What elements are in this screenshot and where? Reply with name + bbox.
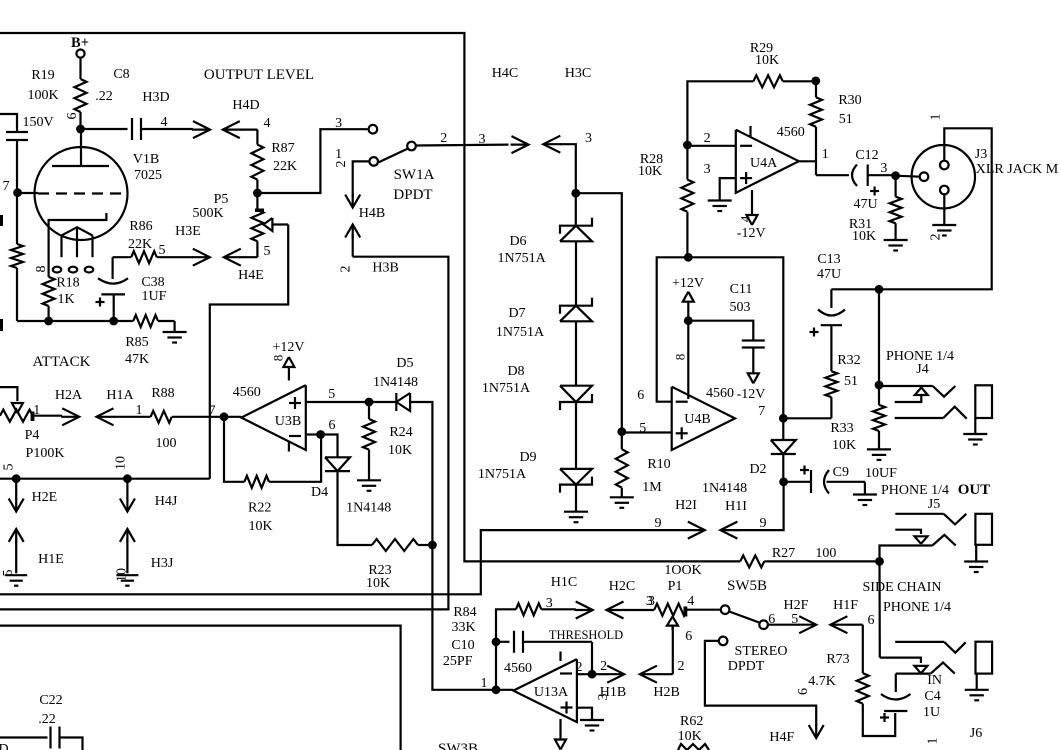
capacitor C12 47U bbox=[816, 174, 849, 176]
svg-text:10K: 10K bbox=[638, 164, 662, 179]
svg-text:51: 51 bbox=[839, 112, 853, 127]
svg-text:H2B: H2B bbox=[653, 685, 679, 700]
svg-text:8: 8 bbox=[672, 354, 687, 361]
svg-text:R84: R84 bbox=[453, 605, 476, 620]
svg-text:R22: R22 bbox=[248, 500, 271, 515]
wire: R73 bottom to C4 bbox=[863, 704, 895, 736]
resistor R18 1K cathode bbox=[43, 277, 55, 306]
resistor R22 10K feedback bbox=[224, 417, 244, 482]
wire: supply from R28 bottom bbox=[686, 212, 688, 257]
wire: XLR pin2 to ground bbox=[943, 194, 945, 225]
svg-text:R19: R19 bbox=[31, 68, 54, 83]
svg-text:5: 5 bbox=[639, 421, 646, 436]
svg-text:PHONE 1/4: PHONE 1/4 bbox=[881, 483, 949, 498]
svg-text:3: 3 bbox=[646, 594, 653, 609]
svg-text:R30: R30 bbox=[838, 93, 861, 108]
svg-text:R10: R10 bbox=[647, 457, 670, 472]
svg-text:1: 1 bbox=[33, 403, 40, 418]
svg-text:6: 6 bbox=[868, 613, 875, 628]
svg-text:10K: 10K bbox=[755, 53, 779, 68]
connector H2B arrow bbox=[640, 666, 657, 683]
op-amp U13A V+ tick bbox=[559, 652, 561, 662]
ground: R24 bbox=[357, 479, 381, 481]
tube plate bbox=[52, 165, 109, 167]
svg-text:H2F: H2F bbox=[784, 598, 809, 613]
wire: grid node to tube bbox=[18, 192, 38, 194]
svg-text:J5: J5 bbox=[928, 497, 940, 512]
svg-text:R73: R73 bbox=[826, 652, 849, 667]
svg-text:5: 5 bbox=[159, 243, 166, 258]
svg-text:R88: R88 bbox=[151, 386, 174, 401]
svg-text:D9: D9 bbox=[519, 450, 536, 465]
ground: U4A pin3 bbox=[708, 199, 732, 201]
svg-text:H4E: H4E bbox=[238, 268, 264, 283]
op-amp U3B negative pin stub bbox=[288, 442, 290, 452]
svg-text:1: 1 bbox=[481, 676, 488, 691]
svg-text:100: 100 bbox=[156, 436, 177, 451]
svg-text:P100K: P100K bbox=[26, 446, 65, 461]
svg-text:IN: IN bbox=[927, 673, 942, 688]
svg-text:10K: 10K bbox=[852, 229, 876, 244]
ground: J4 body bbox=[974, 418, 976, 434]
capacitor C8 .22 coupling bbox=[81, 128, 128, 130]
resistor R73 4.7K bbox=[862, 625, 864, 674]
wire: SW1A contact 3 wire bbox=[257, 129, 368, 193]
node: zener ladder top bbox=[571, 189, 580, 198]
capacitor C9 10UF bbox=[800, 469, 809, 471]
svg-text:SIDE CHAIN: SIDE CHAIN bbox=[863, 580, 942, 595]
node: D2/C9 junction bbox=[779, 477, 788, 486]
op-amp U4B 4560 bbox=[672, 387, 735, 450]
svg-text:D: D bbox=[0, 742, 9, 750]
svg-text:R24: R24 bbox=[389, 425, 412, 440]
svg-text:-12V: -12V bbox=[737, 387, 766, 402]
ground: R10 bbox=[610, 496, 634, 498]
wire: R23 node down to U13A pin1 bbox=[432, 545, 492, 690]
node: plate node junction bbox=[76, 125, 85, 134]
op-amp U13A 4560 bbox=[513, 659, 577, 722]
svg-text:9: 9 bbox=[760, 516, 767, 531]
svg-text:OUTPUT LEVEL: OUTPUT LEVEL bbox=[204, 67, 314, 83]
svg-text:P5: P5 bbox=[214, 192, 229, 207]
connector H3C arrow bbox=[543, 136, 560, 153]
wire: P5 wiper down to attack rail bbox=[210, 225, 288, 479]
ground: XLR pin2 bbox=[932, 224, 956, 226]
triode V1B 7025 envelope bbox=[35, 147, 128, 240]
svg-text:1N4148: 1N4148 bbox=[346, 500, 391, 515]
resistor R19 100K bbox=[75, 79, 87, 112]
svg-text:SW3B: SW3B bbox=[438, 741, 478, 750]
connector J6 phone jack SIDE CHAIN bbox=[880, 658, 921, 663]
svg-text:6: 6 bbox=[768, 612, 775, 627]
wire: pin7 to R32 bottom bbox=[783, 417, 831, 419]
ground: C9 bbox=[864, 482, 866, 495]
ground: R31 bbox=[884, 239, 908, 241]
svg-text:THRESHOLD: THRESHOLD bbox=[549, 628, 623, 642]
capacitor C4 1U bbox=[881, 694, 911, 700]
svg-text:DPDT: DPDT bbox=[728, 659, 765, 674]
svg-text:1: 1 bbox=[928, 114, 943, 121]
resistor R10 1M bbox=[621, 432, 623, 450]
svg-text:D4: D4 bbox=[311, 485, 328, 500]
connector H2C arrow bbox=[607, 602, 624, 619]
svg-text:5: 5 bbox=[791, 612, 798, 627]
svg-text:R85: R85 bbox=[125, 335, 148, 350]
resistor R30 51 bbox=[815, 81, 817, 98]
svg-text:H2E: H2E bbox=[32, 490, 58, 505]
capacitor C10 25PF bbox=[496, 641, 510, 643]
connector H3J arrow (up) with ground bbox=[120, 529, 135, 542]
svg-text:R86: R86 bbox=[129, 219, 152, 234]
zener D9 1N751A bbox=[575, 402, 577, 469]
svg-text:H2A: H2A bbox=[55, 388, 83, 403]
svg-text:H4D: H4D bbox=[232, 98, 259, 113]
svg-text:C38: C38 bbox=[141, 275, 164, 290]
node: cathode rail R18 bbox=[44, 317, 53, 326]
svg-text:C22: C22 bbox=[39, 693, 62, 708]
svg-text:3: 3 bbox=[585, 131, 592, 146]
ground: U13A pin3 bbox=[580, 719, 604, 721]
wire: U4A pin3 ground bbox=[720, 178, 736, 200]
svg-text:H3B: H3B bbox=[372, 261, 398, 276]
wire: U3B pin5 to D5/R24 bbox=[306, 401, 369, 403]
svg-text:H4J: H4J bbox=[155, 494, 178, 509]
svg-text:4: 4 bbox=[161, 115, 168, 130]
svg-text:47U: 47U bbox=[853, 197, 877, 212]
svg-text:4: 4 bbox=[687, 594, 694, 609]
wire: side chain vertical to J6 bbox=[878, 561, 880, 657]
wire: tube bottom rail bbox=[17, 320, 133, 322]
svg-text:5: 5 bbox=[264, 244, 271, 259]
node: U13A pin1 node bbox=[492, 685, 501, 694]
ground: zener ladder bbox=[575, 485, 577, 512]
svg-text:4.7K: 4.7K bbox=[808, 674, 836, 689]
connector J4 phone jack bbox=[879, 385, 933, 387]
diode D5 1N4148 bbox=[395, 393, 397, 411]
svg-text:1: 1 bbox=[136, 403, 143, 418]
connector H2I arrow bbox=[688, 522, 705, 539]
wire: outer loop top border and right edge down to R27 rail bbox=[0, 33, 740, 561]
svg-text:C12: C12 bbox=[855, 148, 878, 163]
svg-text:1: 1 bbox=[822, 147, 829, 162]
wire: H1I to D2 node bbox=[733, 482, 783, 530]
svg-text:P1: P1 bbox=[668, 579, 683, 594]
resistor R32 51 bbox=[825, 371, 837, 397]
svg-text:1N751A: 1N751A bbox=[482, 381, 531, 396]
svg-text:.22: .22 bbox=[95, 89, 113, 104]
svg-text:H1E: H1E bbox=[38, 552, 64, 567]
svg-text:H3C: H3C bbox=[565, 66, 591, 81]
svg-text:7: 7 bbox=[758, 404, 765, 419]
svg-text:7: 7 bbox=[3, 179, 10, 194]
resistor R24 10K bbox=[368, 402, 370, 419]
wire: R19 to plate node bbox=[79, 112, 81, 129]
svg-text:10UF: 10UF bbox=[865, 466, 897, 481]
op-amp U3B 4560 bbox=[241, 385, 305, 450]
svg-text:STEREO: STEREO bbox=[735, 644, 788, 659]
connector J3 XLR JACK M bbox=[896, 176, 920, 177]
connector H4D arrow bbox=[223, 121, 240, 138]
op-amp U4A V+ tick bbox=[749, 126, 751, 137]
svg-text:DPDT: DPDT bbox=[393, 187, 432, 203]
svg-text:J3: J3 bbox=[975, 147, 987, 162]
connector H1I arrow bbox=[720, 522, 737, 539]
svg-text:4560: 4560 bbox=[504, 661, 532, 676]
wire: D4 to R23 bbox=[338, 471, 373, 545]
svg-text:H1F: H1F bbox=[833, 598, 858, 613]
svg-text:U4B: U4B bbox=[684, 412, 710, 427]
node: R23/D5 junction bbox=[428, 541, 437, 550]
wire: stereo contact to H4F bbox=[705, 641, 816, 726]
wire: H3C to zener ladder bbox=[560, 144, 576, 189]
wire: H2B to P1 wiper bbox=[672, 626, 674, 674]
tube heater bbox=[62, 227, 93, 235]
wire: R29 feedback top bbox=[687, 81, 753, 145]
svg-text:100K: 100K bbox=[27, 88, 58, 103]
wire: long return wire to H2I arrow (lower left) bbox=[0, 530, 688, 594]
node: R87/P5 junction bbox=[253, 189, 262, 198]
potentiometer P5 500K bbox=[256, 193, 258, 209]
resistor R86 22K bbox=[113, 256, 132, 258]
op-amp U13A V- arrow bbox=[559, 719, 561, 740]
svg-text:150V: 150V bbox=[22, 115, 53, 130]
svg-text:5: 5 bbox=[1, 570, 16, 577]
node: R33/J4 junction bbox=[875, 381, 884, 390]
svg-text:R87: R87 bbox=[271, 141, 294, 156]
svg-text:C4: C4 bbox=[924, 689, 940, 704]
svg-text:5: 5 bbox=[2, 464, 17, 471]
svg-text:2: 2 bbox=[678, 659, 685, 674]
svg-text:SW1A: SW1A bbox=[394, 167, 435, 183]
svg-text:2: 2 bbox=[576, 660, 583, 675]
svg-text:4: 4 bbox=[738, 215, 753, 222]
svg-text:3: 3 bbox=[596, 694, 611, 701]
svg-text:C13: C13 bbox=[817, 252, 840, 267]
svg-text:3: 3 bbox=[704, 162, 711, 177]
ground: J5 body bbox=[975, 545, 977, 562]
wire: B+ to R19 bbox=[79, 58, 81, 79]
svg-text:H4B: H4B bbox=[359, 206, 385, 221]
wire: pin2 into U4A bbox=[687, 145, 735, 147]
svg-text:7: 7 bbox=[209, 404, 216, 419]
zener D6 1N751A bbox=[575, 193, 577, 226]
left edge clipped text marks bbox=[0, 215, 3, 226]
svg-text:1N751A: 1N751A bbox=[497, 251, 546, 266]
svg-text:1OOK: 1OOK bbox=[664, 563, 701, 578]
svg-text:+12V: +12V bbox=[272, 340, 304, 355]
connector H3D arrow bbox=[193, 121, 210, 138]
svg-text:47U: 47U bbox=[817, 267, 841, 282]
connector H3E arrow bbox=[193, 249, 210, 266]
connector H4F arrow (down) bbox=[809, 725, 824, 738]
svg-text:U13A: U13A bbox=[534, 685, 569, 700]
svg-text:10: 10 bbox=[114, 456, 129, 470]
svg-text:6: 6 bbox=[796, 688, 811, 695]
capacitor C13 47U bbox=[830, 289, 832, 308]
svg-text:C9: C9 bbox=[833, 465, 849, 480]
resistor R33 10K bbox=[878, 385, 880, 405]
connector H1A arrow bbox=[97, 408, 114, 425]
capacitor: 150V supply cap at left edge bbox=[0, 114, 17, 132]
connector H1B arrow bbox=[607, 666, 624, 683]
svg-text:B+: B+ bbox=[71, 35, 89, 51]
svg-text:10K: 10K bbox=[388, 443, 412, 458]
connector H1F arrow bbox=[830, 616, 847, 633]
wire: C10 right down to pin2 bbox=[591, 642, 593, 674]
switch SW5B stereo section contact bbox=[719, 637, 728, 646]
resistor R84 33K bbox=[496, 609, 516, 638]
svg-text:V1B: V1B bbox=[133, 152, 159, 167]
tube cathode bbox=[49, 213, 107, 277]
switch SW1A DPDT bbox=[369, 125, 378, 134]
svg-text:100: 100 bbox=[815, 546, 836, 561]
wire: U4A output to R30 column bbox=[799, 160, 816, 162]
svg-text:3: 3 bbox=[335, 116, 342, 131]
svg-text:H4C: H4C bbox=[492, 66, 518, 81]
svg-text:H3E: H3E bbox=[175, 224, 201, 239]
svg-text:H2I: H2I bbox=[675, 498, 697, 513]
svg-text:8: 8 bbox=[34, 266, 49, 273]
svg-text:H3J: H3J bbox=[151, 556, 174, 571]
svg-text:OUT: OUT bbox=[958, 482, 991, 498]
diode D2 1N4148 bbox=[782, 418, 784, 440]
svg-text:10K: 10K bbox=[678, 729, 702, 744]
wire: R27 rail right portion to J5 node bbox=[764, 560, 879, 562]
svg-text:J4: J4 bbox=[916, 362, 928, 377]
svg-text:25PF: 25PF bbox=[443, 654, 473, 669]
svg-text:6: 6 bbox=[637, 388, 644, 403]
svg-text:2: 2 bbox=[704, 131, 711, 146]
svg-text:2: 2 bbox=[440, 131, 447, 146]
svg-text:1K: 1K bbox=[57, 292, 74, 307]
node: C38 rail junction bbox=[109, 317, 118, 326]
svg-text:XLR JACK M: XLR JACK M bbox=[976, 162, 1059, 177]
svg-text:500K: 500K bbox=[192, 206, 223, 221]
wire: SW5B to H2F bbox=[768, 624, 799, 626]
svg-text:D5: D5 bbox=[396, 356, 413, 371]
svg-text:22K: 22K bbox=[273, 159, 297, 174]
resistor R31 10K bbox=[894, 176, 896, 197]
svg-text:1: 1 bbox=[926, 738, 941, 745]
svg-text:1UF: 1UF bbox=[142, 289, 167, 304]
zener D8 1N751A bbox=[575, 321, 577, 385]
node: feedback/+12V supply junction bbox=[684, 253, 693, 262]
svg-text:22K: 22K bbox=[128, 237, 152, 252]
svg-text:1: 1 bbox=[335, 147, 342, 162]
svg-text:C10: C10 bbox=[451, 638, 474, 653]
tube pin circles bbox=[53, 267, 61, 273]
svg-text:47K: 47K bbox=[125, 352, 149, 367]
node: pin5/R24/D5 bbox=[365, 398, 374, 407]
capacitor C38 1UF bbox=[111, 257, 113, 279]
svg-text:D8: D8 bbox=[507, 364, 524, 379]
node: C13 junction bbox=[875, 285, 884, 294]
svg-text:6: 6 bbox=[65, 113, 80, 120]
svg-text:503: 503 bbox=[730, 300, 751, 315]
resistor R29 10K bbox=[753, 75, 782, 87]
svg-text:5: 5 bbox=[328, 387, 335, 402]
svg-text:6: 6 bbox=[329, 418, 336, 433]
wire: U13A pin3 ground bbox=[577, 708, 592, 720]
svg-text:H1C: H1C bbox=[551, 575, 577, 590]
svg-text:1M: 1M bbox=[642, 480, 662, 495]
connector H2E arrow (down) bbox=[15, 479, 17, 499]
svg-text:D7: D7 bbox=[508, 306, 525, 321]
svg-text:3: 3 bbox=[479, 132, 486, 147]
svg-text:PHONE 1/4: PHONE 1/4 bbox=[883, 600, 951, 615]
svg-text:4560: 4560 bbox=[233, 385, 261, 400]
svg-text:1U: 1U bbox=[923, 705, 940, 720]
svg-text:R33: R33 bbox=[830, 421, 853, 436]
svg-text:1N4148: 1N4148 bbox=[702, 481, 747, 496]
svg-text:D6: D6 bbox=[509, 234, 526, 249]
svg-text:4560: 4560 bbox=[777, 125, 805, 140]
power terminal B+ bbox=[76, 50, 84, 58]
wire: ladder top to U4B pin5 bbox=[576, 193, 622, 428]
node: C12/R31/XLR junction bbox=[891, 171, 900, 180]
connector H2A arrow bbox=[62, 408, 79, 425]
svg-text:7025: 7025 bbox=[134, 168, 162, 183]
ground: R33 bbox=[867, 448, 891, 450]
node: U4B pin5 node bbox=[617, 427, 626, 436]
resistor (left, partially labelled off-page) bbox=[16, 197, 18, 245]
ground: R85 bbox=[174, 321, 176, 332]
resistor R85 47K bbox=[133, 315, 158, 327]
svg-text:R62: R62 bbox=[680, 714, 703, 729]
connector H4J arrow (down) bbox=[126, 479, 128, 499]
node: R84/C10 left junction bbox=[492, 637, 501, 646]
svg-text:10: 10 bbox=[115, 568, 130, 582]
tube grid (dashed) bbox=[38, 192, 122, 194]
svg-text:D2: D2 bbox=[749, 462, 766, 477]
connector H1E arrow (up) with ground bbox=[9, 529, 24, 542]
svg-text:ATTACK: ATTACK bbox=[33, 354, 91, 370]
svg-text:H3D: H3D bbox=[142, 90, 169, 105]
svg-text:C11: C11 bbox=[730, 282, 753, 297]
svg-text:U4A: U4A bbox=[750, 156, 778, 171]
diode D4 1N4148 bbox=[325, 457, 350, 471]
svg-text:1N4148: 1N4148 bbox=[373, 375, 418, 390]
svg-text:H2C: H2C bbox=[609, 579, 635, 594]
svg-text:R18: R18 bbox=[56, 276, 79, 291]
svg-text:H1I: H1I bbox=[725, 499, 747, 514]
connector H4E arrow bbox=[224, 249, 241, 266]
node: U4A pin2 node bbox=[683, 141, 692, 150]
svg-text:2: 2 bbox=[600, 659, 607, 674]
svg-text:33K: 33K bbox=[452, 620, 476, 635]
wire: SW1A common output bbox=[416, 144, 509, 147]
wire: pin6 to D4 bbox=[321, 435, 338, 458]
wire: pin5 into U4B bbox=[622, 431, 672, 433]
wire: XLR pin1 loop to C13 node bbox=[831, 128, 991, 289]
op-amp U4A V- pin 4 arrow -12V bbox=[751, 190, 753, 215]
svg-text:-12V: -12V bbox=[737, 226, 766, 241]
svg-text:4560: 4560 bbox=[706, 386, 734, 401]
ground: J6 body bbox=[976, 674, 978, 690]
zener D7 1N751A bbox=[575, 241, 577, 305]
connector H3B arrow (up) bbox=[345, 225, 360, 238]
svg-text:2: 2 bbox=[338, 266, 353, 273]
svg-text:2: 2 bbox=[334, 161, 349, 168]
svg-text:R27: R27 bbox=[772, 546, 795, 561]
svg-text:3: 3 bbox=[880, 161, 887, 176]
svg-text:10K: 10K bbox=[366, 576, 390, 591]
capacitor C11 503 bbox=[688, 321, 753, 341]
svg-text:8: 8 bbox=[271, 355, 286, 362]
svg-text:10K: 10K bbox=[248, 519, 272, 534]
svg-text:1N751A: 1N751A bbox=[496, 325, 545, 340]
wire: sidechain branch down to R33/J4 bbox=[878, 289, 880, 385]
